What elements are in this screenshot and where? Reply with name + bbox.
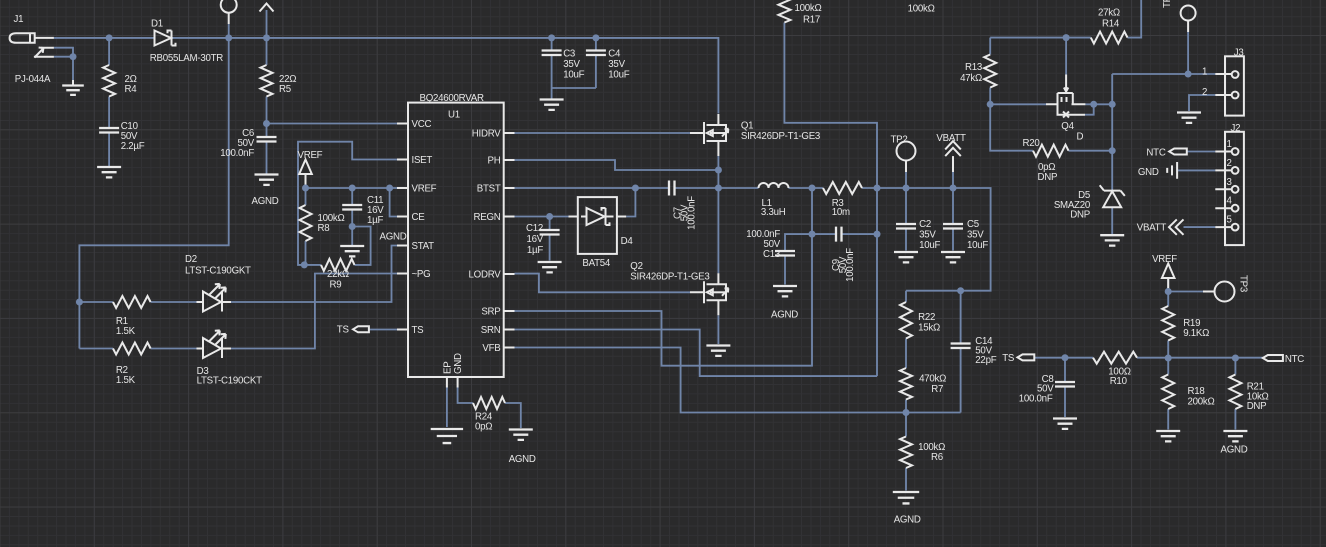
svg-text:C4: C4 [608,49,621,60]
svg-text:R14: R14 [1102,19,1120,30]
svg-text:C2: C2 [919,219,931,230]
svg-text:27kΩ: 27kΩ [1098,8,1120,19]
svg-text:VBATT: VBATT [936,133,966,144]
svg-text:DNP: DNP [1247,401,1267,412]
svg-text:BTST: BTST [477,184,501,195]
svg-text:2: 2 [1202,87,1207,98]
svg-text:5: 5 [1227,215,1232,226]
svg-text:35V: 35V [608,59,625,70]
svg-text:J3: J3 [1234,48,1244,59]
svg-text:DNP: DNP [1038,172,1058,183]
svg-text:LTST-C190CKT: LTST-C190CKT [197,376,263,387]
svg-text:0pΩ: 0pΩ [475,422,492,433]
svg-text:TP3: TP3 [1238,275,1249,292]
svg-text:C13: C13 [763,249,780,260]
svg-text:1: 1 [1227,139,1232,150]
svg-text:STAT: STAT [412,241,435,252]
svg-text:2: 2 [1227,158,1232,169]
svg-text:1.5K: 1.5K [116,375,136,386]
svg-text:VREF: VREF [1152,254,1177,265]
svg-text:J2: J2 [1231,123,1241,134]
svg-text:PJ-044A: PJ-044A [15,74,51,85]
svg-text:C12: C12 [526,223,543,234]
svg-text:VBATT: VBATT [1137,223,1167,234]
svg-text:TS: TS [1002,353,1015,364]
svg-text:Q1: Q1 [741,121,753,132]
svg-text:10uF: 10uF [967,240,988,251]
svg-text:4: 4 [1227,196,1233,207]
svg-text:C5: C5 [967,219,979,230]
svg-text:AGND: AGND [771,310,798,321]
svg-text:D4: D4 [621,236,634,247]
svg-text:R17: R17 [803,15,820,26]
svg-text:R20: R20 [1023,138,1041,149]
svg-text:BAT54: BAT54 [582,258,611,269]
svg-text:3.3uH: 3.3uH [761,207,786,218]
svg-text:9.1KΩ: 9.1KΩ [1183,328,1209,339]
svg-text:D1: D1 [151,19,163,30]
svg-text:AGND: AGND [252,196,279,207]
svg-text:RB055LAM-30TR: RB055LAM-30TR [150,53,223,64]
svg-text:~PG: ~PG [412,269,431,280]
svg-text:U1: U1 [448,110,460,121]
svg-text:CE: CE [412,212,426,223]
svg-text:200kΩ: 200kΩ [1188,397,1215,408]
svg-text:DNP: DNP [1070,210,1090,221]
svg-text:PH: PH [488,156,501,167]
svg-text:AGND: AGND [894,515,921,526]
svg-text:10uF: 10uF [608,70,629,81]
svg-text:VREF: VREF [412,184,437,195]
svg-text:R10: R10 [1110,376,1128,387]
svg-text:NTC: NTC [1146,148,1165,159]
svg-text:GND: GND [453,353,464,374]
svg-text:J1: J1 [14,14,24,25]
svg-text:TS: TS [412,325,425,336]
svg-text:35V: 35V [919,230,936,241]
svg-text:VCC: VCC [412,119,432,130]
svg-text:R22: R22 [918,312,935,323]
svg-text:100.0nF: 100.0nF [687,196,698,230]
svg-text:47kΩ: 47kΩ [960,73,982,84]
svg-text:15kΩ: 15kΩ [918,323,940,334]
svg-text:AGND: AGND [509,454,536,465]
svg-text:R6: R6 [931,452,943,463]
svg-text:SRN: SRN [481,325,501,336]
svg-text:1.5K: 1.5K [116,326,136,337]
svg-text:22kΩ: 22kΩ [327,269,349,280]
svg-text:VFB: VFB [482,343,500,354]
svg-text:100kΩ: 100kΩ [908,4,935,15]
svg-text:LTST-C190GKT: LTST-C190GKT [185,266,251,277]
svg-text:NTC: NTC [1285,354,1304,365]
svg-text:LODRV: LODRV [469,270,502,281]
svg-text:ISET: ISET [412,155,433,166]
svg-text:BQ24600RVAR: BQ24600RVAR [420,93,484,104]
svg-text:C3: C3 [563,49,575,60]
svg-text:100.0nF: 100.0nF [845,248,856,282]
svg-text:D2: D2 [185,254,197,265]
svg-text:R5: R5 [279,84,291,95]
svg-text:SIR426DP-T1-GE3: SIR426DP-T1-GE3 [630,271,709,282]
svg-text:10uF: 10uF [563,70,584,81]
svg-text:3: 3 [1227,177,1232,188]
svg-text:TS: TS [337,325,350,336]
svg-text:100.0nF: 100.0nF [1019,394,1053,405]
svg-text:Q4: Q4 [1061,121,1074,132]
svg-text:22pF: 22pF [975,355,996,366]
svg-text:REGN: REGN [474,212,501,223]
svg-text:SRP: SRP [481,307,500,318]
svg-text:100kΩ: 100kΩ [795,3,822,14]
svg-text:1µF: 1µF [367,215,383,226]
svg-text:D: D [1077,132,1084,143]
svg-text:AGND: AGND [380,232,407,243]
svg-text:10uF: 10uF [919,240,940,251]
svg-text:VREF: VREF [298,150,323,161]
svg-text:35V: 35V [967,230,984,241]
svg-text:R7: R7 [931,384,943,395]
svg-text:1µF: 1µF [527,245,543,256]
svg-text:100.0nF: 100.0nF [220,148,254,159]
svg-text:R18: R18 [1188,386,1205,397]
svg-text:SIR426DP-T1-GE3: SIR426DP-T1-GE3 [741,131,820,142]
svg-text:HIDRV: HIDRV [472,129,502,140]
svg-text:EP: EP [443,362,454,374]
svg-text:1: 1 [1202,67,1207,78]
svg-text:GND: GND [1138,167,1159,178]
svg-text:R8: R8 [318,223,330,234]
svg-text:35V: 35V [563,59,580,70]
svg-text:TP1: TP1 [1162,0,1173,8]
svg-text:TP2: TP2 [891,135,908,146]
svg-text:R13: R13 [965,62,982,73]
svg-text:16V: 16V [527,234,544,245]
svg-text:AGND: AGND [1221,445,1248,456]
svg-text:2.2µF: 2.2µF [121,141,145,152]
svg-text:R9: R9 [330,280,342,291]
svg-text:10m: 10m [832,207,850,218]
svg-text:470kΩ: 470kΩ [919,374,946,385]
svg-text:R4: R4 [125,84,138,95]
